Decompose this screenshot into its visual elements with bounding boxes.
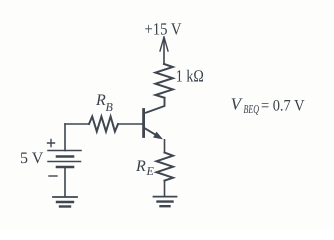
svg-text:B: B [106,100,114,114]
svg-text:+15 V: +15 V [145,19,183,38]
svg-text:BEQ: BEQ [244,102,260,116]
svg-text:V: V [231,95,244,114]
svg-text:= 0.7 V: = 0.7 V [261,98,305,115]
svg-text:1 kΩ: 1 kΩ [176,67,204,86]
svg-text:R: R [135,158,146,175]
svg-text:5 V: 5 V [20,150,44,167]
svg-text:R: R [95,92,106,109]
svg-text:E: E [146,164,155,178]
